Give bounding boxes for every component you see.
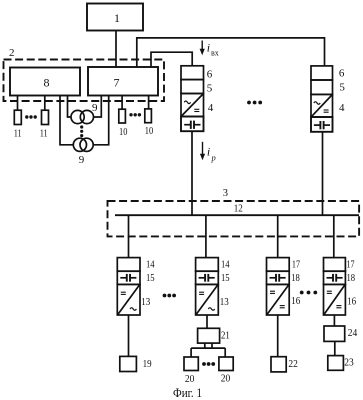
load 20b bbox=[219, 357, 233, 371]
svg-text:16: 16 bbox=[347, 296, 356, 308]
wire block7 to element 10a bbox=[121, 96, 123, 110]
svg-text:5: 5 bbox=[207, 83, 213, 95]
vertical dots between transformers bbox=[80, 125, 83, 137]
wire stack4 to unit 24 bbox=[333, 315, 335, 326]
wire block8 to top transformer bbox=[68, 96, 72, 118]
svg-text:13: 13 bbox=[141, 296, 150, 308]
element 11b bbox=[42, 110, 49, 124]
stack2: inverter 13 (DC/AC) bbox=[196, 284, 219, 315]
svg-text:16: 16 bbox=[291, 295, 300, 307]
drop to load stack 1 bbox=[128, 215, 130, 257]
dashed unit 2 boundary bbox=[4, 60, 165, 102]
stack1: block 14 bbox=[117, 258, 140, 272]
svg-text:10: 10 bbox=[119, 127, 127, 138]
left stack: block 6 bbox=[181, 66, 204, 80]
svg-text:4: 4 bbox=[208, 102, 214, 114]
stack1: inverter 13 (DC/AC) bbox=[117, 284, 140, 315]
stack3: converter 16 (DC/DC) bbox=[267, 284, 290, 315]
element 10b bbox=[145, 109, 152, 123]
right stack: block 6 bbox=[311, 66, 333, 80]
svg-text:8: 8 bbox=[44, 75, 50, 89]
wire block8 to bottom transformer bbox=[60, 96, 73, 145]
svg-text:15: 15 bbox=[146, 272, 155, 284]
dashed unit 12 boundary bbox=[108, 201, 360, 236]
svg-text:20: 20 bbox=[185, 373, 195, 385]
transformer 9 (top) bbox=[71, 110, 94, 123]
svg-text:2: 2 bbox=[9, 47, 15, 59]
svg-text:9: 9 bbox=[79, 154, 85, 166]
svg-text:11: 11 bbox=[40, 129, 48, 140]
svg-text:6: 6 bbox=[207, 69, 213, 81]
dots between stack1 and stack2 bbox=[163, 294, 176, 298]
svg-text:18: 18 bbox=[347, 272, 356, 284]
stack2: block 14 bbox=[196, 258, 219, 272]
stack3: block 17 bbox=[267, 258, 290, 272]
svg-text:7: 7 bbox=[114, 76, 120, 90]
dots between top stacks bbox=[247, 101, 262, 105]
svg-text:i: i bbox=[207, 40, 210, 54]
svg-text:17: 17 bbox=[292, 258, 300, 270]
svg-text:i: i bbox=[207, 145, 210, 159]
svg-text:12: 12 bbox=[234, 202, 243, 214]
svg-text:10: 10 bbox=[145, 126, 153, 137]
unit 21 bbox=[198, 328, 220, 343]
dots between 10 bbox=[129, 113, 141, 116]
load 20a bbox=[184, 357, 198, 371]
transformer 9 (bottom) bbox=[73, 138, 93, 151]
wire stack2 to unit 21 bbox=[206, 315, 208, 328]
svg-text:15: 15 bbox=[221, 272, 230, 284]
svg-text:13: 13 bbox=[220, 296, 229, 308]
drop to load stack 3 bbox=[277, 215, 279, 257]
wire unit 24 to load 23 bbox=[334, 341, 336, 355]
left stack: converter 4 (AC/DC) bbox=[181, 94, 204, 117]
svg-text:Фиг. 1: Фиг. 1 bbox=[173, 386, 202, 400]
wire block8 to element 11a bbox=[17, 96, 19, 111]
svg-text:вх: вх bbox=[211, 49, 219, 58]
svg-text:14: 14 bbox=[146, 258, 155, 270]
load 23 bbox=[328, 356, 344, 371]
drop to load stack 2 bbox=[205, 215, 207, 257]
drop to load stack 4 bbox=[333, 215, 335, 257]
stack4: block 17 bbox=[324, 258, 346, 272]
wire stack1 to load 19 bbox=[128, 315, 130, 356]
element 10a bbox=[119, 109, 126, 123]
block 1 bbox=[87, 4, 143, 31]
wire block8 to element 11b bbox=[44, 96, 46, 111]
svg-text:23: 23 bbox=[344, 357, 354, 369]
bus 12 bbox=[115, 214, 359, 216]
svg-text:20: 20 bbox=[221, 372, 231, 384]
stack1: capacitor 15 bbox=[117, 271, 140, 284]
load 22 bbox=[271, 357, 286, 372]
svg-text:6: 6 bbox=[339, 68, 345, 80]
current arrow i_vx bbox=[200, 40, 219, 57]
dots between 11 bbox=[25, 115, 37, 118]
block 7 bbox=[88, 67, 158, 96]
stack4: converter 16 (DC/DC) bbox=[324, 284, 346, 315]
element 11a bbox=[14, 110, 21, 124]
wire block7 to element 10b bbox=[148, 96, 150, 109]
current arrow i_p bbox=[200, 142, 216, 163]
left stack: capacitor cell bbox=[181, 117, 204, 132]
dots between stack3 and stack4 bbox=[300, 291, 317, 295]
right stack: capacitor cell bbox=[311, 117, 333, 132]
wire right stack to bus bbox=[322, 132, 324, 215]
svg-text:24: 24 bbox=[348, 327, 358, 339]
load 19 bbox=[120, 356, 137, 371]
wire block1 to block7 bbox=[115, 31, 117, 68]
wire stack3 to load 22 bbox=[277, 315, 279, 357]
svg-text:3: 3 bbox=[223, 188, 228, 199]
svg-text:22: 22 bbox=[288, 358, 298, 370]
svg-text:4: 4 bbox=[339, 102, 345, 114]
svg-text:14: 14 bbox=[221, 258, 230, 270]
stack2: capacitor 15 bbox=[196, 271, 219, 284]
wire splitter from 21 to loads 20 bbox=[204, 343, 206, 348]
wire block7 to right converter stack bbox=[137, 38, 325, 67]
wire block7 to top transformer bbox=[93, 96, 101, 118]
svg-text:11: 11 bbox=[14, 129, 22, 140]
svg-text:21: 21 bbox=[221, 330, 230, 342]
dots between loads 20 bbox=[202, 362, 215, 366]
wire left stack to bus bbox=[191, 131, 193, 215]
svg-text:18: 18 bbox=[291, 272, 300, 284]
right stack: block 5 bbox=[311, 80, 333, 94]
svg-text:17: 17 bbox=[347, 258, 355, 270]
stack3: capacitor 18 bbox=[267, 271, 290, 284]
svg-text:1: 1 bbox=[114, 11, 120, 25]
right stack: converter 4 (AC/DC) bbox=[311, 94, 333, 117]
svg-text:9: 9 bbox=[92, 102, 98, 114]
svg-text:р: р bbox=[211, 152, 216, 162]
left stack: block 5 bbox=[181, 80, 204, 94]
block 8 bbox=[10, 68, 80, 96]
stack4: capacitor 18 bbox=[324, 271, 346, 284]
wire block7 to bottom transformer bbox=[93, 96, 109, 145]
svg-text:19: 19 bbox=[143, 358, 152, 370]
unit 24 bbox=[324, 326, 345, 341]
svg-text:5: 5 bbox=[339, 82, 345, 94]
wire block7 to left converter stack bbox=[151, 52, 192, 67]
